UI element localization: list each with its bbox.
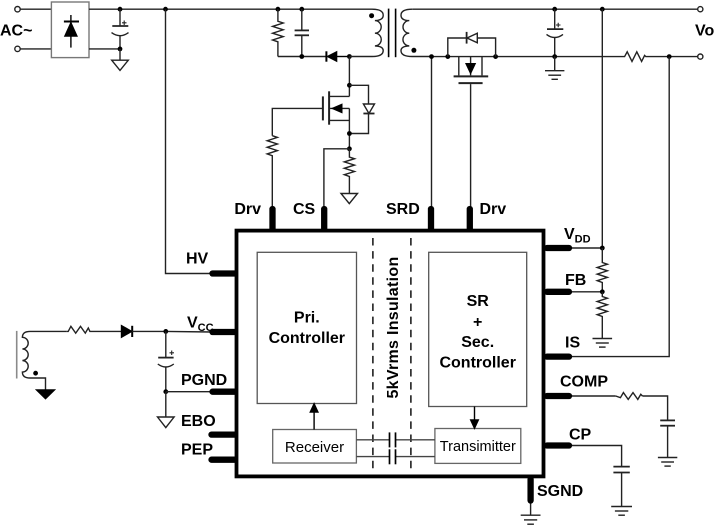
- node Vo return terminal: [698, 54, 703, 59]
- node dot CS tap: [347, 146, 352, 151]
- inductor aux winding: [22, 331, 66, 390]
- node dot primary bottom junction: [347, 54, 352, 59]
- wire IS feed from Vo: [568, 57, 669, 357]
- capacitor bulk input (polarized): [112, 9, 129, 49]
- wire bridge bottom to bulk cap: [89, 48, 120, 50]
- capacitor COMP: [660, 420, 675, 457]
- pin Vcc stub: [213, 329, 235, 335]
- svg-text:Controller: Controller: [439, 355, 515, 372]
- pin VDD stub: [547, 245, 569, 251]
- ground current sense (open triangle): [341, 194, 358, 204]
- svg-text:Pri.: Pri.: [294, 310, 320, 327]
- diode SR external: [448, 32, 496, 57]
- ground aux (filled arrow): [37, 390, 55, 399]
- resistor Vcc series: [66, 326, 121, 333]
- capacitor output (polarized): [547, 9, 564, 56]
- svg-text:Transimitter: Transimitter: [440, 439, 516, 455]
- svg-text:Vo: Vo: [695, 23, 714, 40]
- resistor FB upper divider: [597, 248, 607, 292]
- svg-text:Receiver: Receiver: [285, 439, 344, 456]
- svg-text:Controller: Controller: [269, 330, 345, 347]
- svg-text:AC~: AC~: [0, 22, 32, 39]
- IC U1 outline: [237, 231, 544, 477]
- diode snubber clamp: [326, 51, 349, 61]
- node aux phase dot: [33, 371, 38, 376]
- pin IS stub: [547, 353, 569, 359]
- wire COMP RC: [642, 396, 667, 420]
- svg-text:FB: FB: [565, 272, 586, 289]
- wire COMP pin: [568, 395, 616, 397]
- wire HV feed: [166, 9, 213, 273]
- transformer T1 core: [389, 9, 396, 58]
- inductor aux winding core: [16, 331, 18, 379]
- ground output (earth): [545, 57, 564, 80]
- pin SRD stub: [428, 209, 434, 229]
- pin FB stub: [547, 289, 569, 295]
- wire Q2 gate to Drv pin: [470, 84, 472, 208]
- svg-text:SR: SR: [467, 293, 490, 310]
- node dot bulk cap bottom: [118, 47, 123, 52]
- wire AC bottom terminal to bridge: [20, 48, 51, 50]
- wire SRD pin to secondary rail: [431, 57, 433, 209]
- wire secondary top rail: [412, 8, 698, 10]
- pin EBO stub: [212, 431, 235, 437]
- pin PEP stub: [212, 457, 235, 463]
- node T1 secondary phase dot: [411, 48, 416, 53]
- node dot Q1 drain: [347, 83, 352, 88]
- wire PGND pin: [166, 391, 212, 393]
- node dot snubber resistor top: [276, 7, 281, 12]
- svg-text:IS: IS: [565, 335, 580, 352]
- block Pri. Controller box: [257, 252, 356, 403]
- svg-text:PEP: PEP: [181, 442, 213, 459]
- svg-text:SRD: SRD: [386, 201, 420, 218]
- wire VDD feed from rail: [601, 9, 603, 248]
- svg-text:SGND: SGND: [537, 483, 583, 500]
- wire primary top rail: [89, 8, 372, 10]
- node dot snubber cap top: [299, 7, 304, 12]
- wire snubber bottom: [278, 56, 327, 58]
- wire receiver arrow: [310, 404, 318, 430]
- svg-text:5kVrms Insulation: 5kVrms Insulation: [385, 256, 402, 398]
- pin CP stub: [547, 442, 569, 448]
- svg-text:COMP: COMP: [560, 374, 608, 391]
- node AC input terminal top: [15, 7, 20, 12]
- node dot Vcc junction: [163, 329, 168, 334]
- svg-text:CS: CS: [293, 201, 316, 218]
- ground CP (earth): [611, 507, 632, 516]
- wire AC top terminal to bridge: [20, 8, 51, 10]
- node dot output cap top: [552, 7, 557, 12]
- svg-text:HV: HV: [186, 251, 209, 268]
- wire gate Q1 to Drv resistor: [272, 108, 323, 135]
- wire Vcc pin: [166, 330, 212, 333]
- svg-text:CP: CP: [569, 427, 592, 444]
- resistor Drv gate: [267, 136, 277, 209]
- pin COMP stub: [547, 393, 569, 399]
- node dot FB divider: [600, 289, 605, 294]
- wire CP pin: [568, 446, 622, 467]
- diode Q1 body diode: [349, 85, 374, 133]
- pin PGND stub: [213, 389, 235, 395]
- svg-text:Sec.: Sec.: [461, 334, 494, 351]
- svg-text:EBO: EBO: [181, 413, 216, 430]
- barrier insulation dashed line left: [372, 238, 374, 469]
- node dot Vo sense junction: [667, 54, 672, 59]
- capacitor CP: [613, 467, 629, 507]
- ground FB divider (earth): [593, 339, 613, 348]
- pin Drv (secondary) stub: [467, 209, 473, 229]
- node dot VDD divider: [600, 246, 605, 251]
- svg-text:VDD: VDD: [564, 226, 591, 246]
- node dot SRD junction: [429, 54, 434, 59]
- node dot snubber cap bottom: [299, 54, 304, 59]
- barrier insulation dashed line right: [410, 238, 412, 469]
- capacitor Vcc (polarized): [158, 331, 174, 391]
- transistor Q2 SR MOSFET: [454, 57, 489, 84]
- wire VDD pin: [568, 247, 602, 249]
- node dot Q1 source: [347, 131, 352, 136]
- transformer T1 primary winding: [349, 9, 383, 56]
- wire FB pin: [568, 291, 602, 293]
- block Receiver box: [273, 430, 357, 464]
- wire SGND ground lead: [530, 500, 532, 515]
- resistor snubber: [273, 9, 284, 56]
- ground COMP (earth): [658, 458, 677, 467]
- node dot PGND junction: [163, 389, 168, 394]
- capacitor snubber: [295, 9, 309, 56]
- svg-text:PGND: PGND: [181, 372, 227, 389]
- svg-text:Drv: Drv: [480, 201, 507, 218]
- node dot VDD rail tap: [600, 7, 605, 12]
- resistor current sense: [344, 149, 354, 194]
- node AC input terminal bottom: [15, 46, 20, 51]
- node T1 primary phase dot: [369, 13, 374, 18]
- capacitor coupling upper: [356, 432, 435, 447]
- block Transmitter box: [435, 429, 521, 464]
- resistor output sense: [621, 52, 698, 62]
- diode Vcc: [121, 325, 166, 337]
- bridge rectifier BR1 diode: [64, 15, 79, 48]
- pin CS stub: [321, 209, 327, 229]
- node dot Q2 left: [445, 54, 450, 59]
- resistor COMP: [616, 393, 643, 400]
- transistor Q1 primary MOSFET: [323, 57, 350, 149]
- pin Drv (primary) stub: [269, 209, 275, 229]
- node dot bulk cap top: [118, 7, 123, 12]
- capacitor coupling lower: [356, 449, 435, 464]
- ground PGND (open triangle): [158, 392, 175, 428]
- transformer T1 secondary winding: [401, 9, 432, 56]
- node dot output cap bottom: [552, 54, 557, 59]
- pin SGND stub: [527, 480, 533, 501]
- bridge rectifier BR1 box: [51, 2, 89, 58]
- pin HV stub: [213, 270, 235, 276]
- wire CS tap to CS pin: [324, 149, 350, 209]
- ground SGND (earth): [521, 515, 541, 524]
- block SR Sec Controller box: [429, 252, 527, 406]
- wire secondary bottom rail: [432, 56, 622, 58]
- ground input (open triangle): [112, 49, 129, 71]
- node dot Q2 right: [493, 54, 498, 59]
- node Vo positive terminal: [698, 7, 703, 12]
- node dot HV tap: [163, 7, 168, 12]
- svg-text:+: +: [473, 314, 482, 331]
- resistor FB lower divider: [597, 292, 607, 339]
- svg-text:VCC: VCC: [187, 315, 214, 335]
- wire transmitter arrow: [471, 407, 479, 429]
- svg-text:Drv: Drv: [234, 201, 261, 218]
